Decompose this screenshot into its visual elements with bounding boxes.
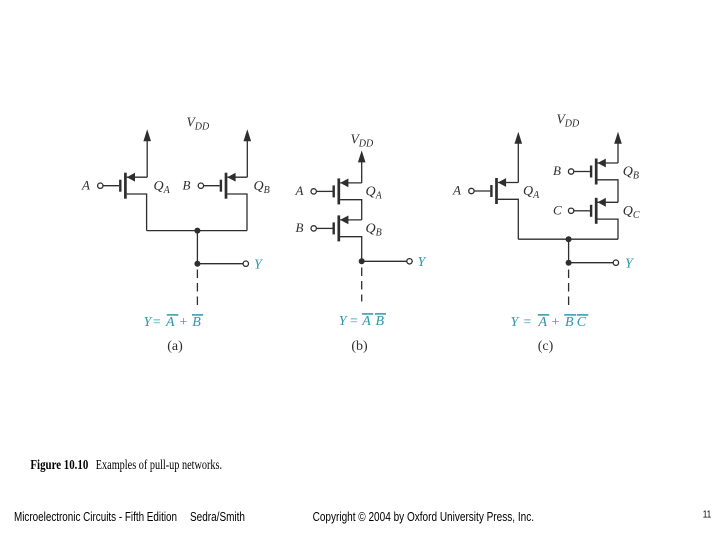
svg-text:A: A bbox=[452, 183, 461, 198]
svg-text:Figure 10.10: Figure 10.10 bbox=[30, 457, 88, 472]
wire node to Y node (a) bbox=[196, 231, 198, 264]
svg-text:=: = bbox=[350, 314, 358, 329]
svg-text:C: C bbox=[577, 315, 587, 330]
svg-text:B: B bbox=[192, 315, 201, 330]
wire QC drain (c) bbox=[598, 219, 619, 239]
wire QB drain to QC source (c) bbox=[598, 180, 619, 203]
svg-text:Y: Y bbox=[418, 255, 428, 270]
svg-text:+: + bbox=[552, 315, 560, 330]
svg-text:B: B bbox=[553, 163, 561, 178]
wire bottom rail (c) bbox=[518, 238, 618, 240]
wire to Y terminal (a) bbox=[197, 263, 243, 265]
svg-text:Microelectronic Circuits - Fif: Microelectronic Circuits - Fifth Edition bbox=[14, 509, 177, 524]
terminal circle Y (b) bbox=[407, 259, 412, 264]
transistor QB (c) bbox=[590, 159, 606, 185]
svg-text:Examples of pull-up networks.: Examples of pull-up networks. bbox=[96, 457, 222, 472]
transistor QA (a) bbox=[119, 173, 135, 199]
svg-text:Y: Y bbox=[254, 258, 264, 273]
teal output labels and boolean expressions bbox=[144, 255, 636, 330]
svg-text:Y: Y bbox=[339, 314, 349, 329]
svg-text:QA: QA bbox=[523, 184, 540, 201]
wire to Y terminal (c) bbox=[569, 262, 614, 264]
junction node Y (c) bbox=[566, 260, 572, 266]
svg-text:(c): (c) bbox=[538, 339, 554, 354]
wire QA drain (a) bbox=[127, 194, 147, 231]
wire QB drain (b) bbox=[340, 237, 362, 262]
wire QA source up to VDD (c) bbox=[517, 143, 519, 183]
svg-text:Y: Y bbox=[511, 315, 521, 330]
transistor QA (c) bbox=[490, 178, 506, 204]
wire gate A (a) bbox=[103, 185, 119, 187]
svg-text:C: C bbox=[553, 203, 562, 218]
wire QB source (b) bbox=[340, 219, 362, 221]
wire QA source (a) bbox=[127, 176, 148, 178]
svg-text:A: A bbox=[361, 314, 371, 329]
wire bottom rail (a) bbox=[147, 230, 247, 232]
terminal circle C (c) bbox=[568, 208, 573, 213]
expression (a): Y = A-bar + B-bar bbox=[144, 315, 204, 330]
svg-text:=: = bbox=[524, 315, 532, 330]
svg-text:VDD: VDD bbox=[557, 112, 580, 130]
wire gate A (c) bbox=[474, 190, 490, 192]
junction node (c) bbox=[566, 236, 572, 242]
svg-text:Y: Y bbox=[625, 257, 635, 272]
wire QB drain (a) bbox=[227, 194, 247, 231]
terminal circle B (c) bbox=[568, 169, 573, 174]
terminal circle A (b) bbox=[311, 189, 316, 194]
wire gate A (b) bbox=[317, 190, 333, 192]
figure caption bbox=[30, 457, 222, 472]
svg-text:B: B bbox=[376, 314, 385, 329]
svg-text:Copyright © 2004 by Oxford Uni: Copyright © 2004 by Oxford University Pr… bbox=[313, 509, 534, 524]
junction node Y (b) bbox=[359, 258, 365, 264]
wire gate B (c) bbox=[574, 171, 590, 173]
wire QA drain to QB source (b) bbox=[340, 200, 362, 220]
wire gate B (a) bbox=[204, 185, 220, 187]
arrowhead VDD QB (c) bbox=[614, 132, 622, 144]
svg-text:QB: QB bbox=[366, 222, 382, 239]
terminal circle A (a) bbox=[98, 183, 103, 188]
svg-text:(a): (a) bbox=[167, 339, 183, 354]
wire QB source (a) bbox=[227, 176, 247, 178]
svg-text:+: + bbox=[180, 315, 188, 330]
svg-text:QB: QB bbox=[254, 179, 270, 196]
arrowhead VDD QA (a) bbox=[143, 129, 151, 141]
wire QB source up to VDD (a) bbox=[246, 141, 248, 178]
wire QA drain (c) bbox=[498, 199, 519, 239]
transistor QC (c) bbox=[590, 198, 606, 224]
wire QA source (c) bbox=[498, 182, 519, 184]
arrowhead VDD QA (c) bbox=[515, 132, 523, 144]
wire QB source up to VDD (c) bbox=[617, 143, 619, 163]
transistor QB (a) bbox=[220, 173, 236, 199]
svg-text:B: B bbox=[565, 315, 574, 330]
terminal circle Y (a) bbox=[243, 261, 248, 266]
wire QB source (c) bbox=[598, 162, 619, 164]
wire QA source up to VDD (b) bbox=[361, 162, 363, 183]
svg-text:A: A bbox=[81, 178, 90, 193]
arrowhead VDD QB (a) bbox=[244, 129, 252, 141]
svg-text:B: B bbox=[296, 220, 304, 235]
svg-text:(b): (b) bbox=[351, 339, 368, 354]
svg-text:Sedra/Smith: Sedra/Smith bbox=[190, 509, 245, 524]
svg-text:11: 11 bbox=[703, 509, 712, 520]
svg-text:A: A bbox=[538, 315, 548, 330]
terminal circle B (b) bbox=[311, 226, 316, 231]
svg-text:QB: QB bbox=[623, 165, 639, 182]
svg-text:QA: QA bbox=[154, 179, 171, 196]
svg-text:QA: QA bbox=[366, 185, 383, 202]
wire QA source (b) bbox=[340, 182, 362, 184]
footer bbox=[14, 509, 712, 524]
arrowhead VDD (b) bbox=[358, 150, 366, 162]
dashed wire down (c) bbox=[568, 270, 570, 306]
junction node (a) bbox=[194, 228, 200, 234]
wire QA source up to VDD (a) bbox=[146, 141, 148, 178]
expression (c): Y = A-bar + B-bar C-bar bbox=[511, 315, 589, 330]
svg-text:VDD: VDD bbox=[351, 132, 374, 150]
svg-text:A: A bbox=[165, 315, 175, 330]
svg-text:VDD: VDD bbox=[187, 115, 210, 133]
junction node Y (a) bbox=[194, 261, 200, 267]
terminal circle Y (c) bbox=[613, 260, 618, 265]
expression (b): Y = A-bar B-bar bbox=[339, 314, 386, 329]
svg-text:B: B bbox=[183, 178, 191, 193]
terminal circle B (a) bbox=[198, 183, 203, 188]
wire gate C (c) bbox=[574, 210, 590, 212]
terminal circle A (c) bbox=[469, 188, 474, 193]
wire QC source (c) bbox=[598, 201, 619, 203]
wire to Y terminal (b) bbox=[362, 260, 407, 262]
transistor QB (b) bbox=[333, 215, 349, 241]
dashed wire down (a) bbox=[196, 270, 198, 306]
wire node to Y node (c) bbox=[568, 239, 570, 263]
dashed wire down (b) bbox=[361, 268, 363, 302]
svg-text:=: = bbox=[153, 315, 161, 330]
transistor QA (b) bbox=[333, 178, 349, 204]
wire gate B (b) bbox=[317, 227, 333, 229]
svg-text:QC: QC bbox=[623, 204, 640, 221]
svg-text:A: A bbox=[295, 183, 304, 198]
